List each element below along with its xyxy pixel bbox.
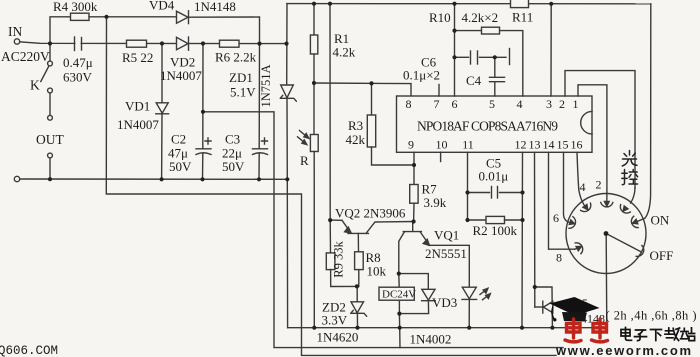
watermark graduation cap logo <box>550 297 600 322</box>
top rail <box>287 3 651 5</box>
wire ON from top rail <box>638 4 651 221</box>
node pin12 bottom <box>520 326 524 330</box>
svg-text:( 2h ,4h ,6h ,8h ): ( 2h ,4h ,6h ,8h ) <box>606 309 697 323</box>
diode VD4 <box>177 11 189 23</box>
node VD3 bottom <box>397 312 401 316</box>
pin 12 line down <box>521 152 524 327</box>
svg-text:4: 4 <box>580 180 586 194</box>
node R1 top <box>312 2 316 6</box>
svg-text:R9 33k: R9 33k <box>332 241 346 278</box>
chinese label 光控 (drawn strokes) <box>622 151 638 185</box>
pin 9 stub and net <box>413 152 415 165</box>
watermark 虫虫 red <box>565 319 608 342</box>
resistor R4 <box>71 13 90 20</box>
capacitor C5 <box>468 192 490 194</box>
svg-text:50V: 50V <box>222 159 245 174</box>
svg-text:OUT: OUT <box>36 132 64 147</box>
node VD5 line bottom <box>550 326 554 330</box>
svg-text:C2: C2 <box>171 132 186 147</box>
node C6 mid <box>493 55 497 59</box>
svg-text:3.3V: 3.3V <box>322 313 348 328</box>
node R10 left <box>452 29 456 33</box>
svg-text:NPO18AF COP8SAA716N9: NPO18AF COP8SAA716N9 <box>417 119 558 134</box>
svg-text:IN: IN <box>8 24 22 39</box>
rotary contact ON (right) <box>631 216 638 227</box>
capacitor C4 <box>494 57 496 77</box>
node VQ2 emitter <box>328 218 332 222</box>
svg-text:VQ1: VQ1 <box>434 228 459 243</box>
svg-text:0.01μ: 0.01μ <box>479 169 509 184</box>
node R3 top <box>369 81 373 85</box>
resistor R5 <box>127 40 147 47</box>
svg-text:8: 8 <box>406 97 412 111</box>
svg-text:VD4: VD4 <box>149 0 175 13</box>
rotary wiper <box>606 234 641 252</box>
resistor R9 <box>329 220 331 253</box>
terminal OUT <box>14 176 19 181</box>
svg-text:16: 16 <box>571 138 583 152</box>
diode VD1 <box>161 44 163 103</box>
node R8 R9 join <box>355 284 359 288</box>
wire IN to junction <box>20 42 287 44</box>
node rail2 end ZD1 line <box>285 177 289 181</box>
LED VD4b indicator <box>462 287 476 299</box>
svg-text:7: 7 <box>434 97 440 111</box>
wire pin8 net <box>314 83 411 96</box>
svg-text:9: 9 <box>408 138 414 152</box>
wire pin2 route lower <box>631 188 636 203</box>
bottom rail 1 <box>288 327 607 329</box>
svg-text:R4 300k: R4 300k <box>53 0 98 14</box>
wire OUT rail <box>20 178 287 180</box>
rotary contact 8 (lower-left) <box>575 243 583 254</box>
svg-text:42k: 42k <box>346 132 366 147</box>
pin 6 line to top rail <box>454 4 456 96</box>
node R2 right <box>520 218 524 222</box>
svg-text:100k: 100k <box>491 223 518 238</box>
resistor R10 <box>482 27 500 34</box>
node OUT/K <box>48 177 52 181</box>
node VQ1 collector <box>397 272 401 276</box>
diode VD2 <box>177 37 189 49</box>
svg-text:1N4007: 1N4007 <box>117 117 159 132</box>
svg-text:C4: C4 <box>466 73 482 88</box>
svg-text:2: 2 <box>559 97 565 111</box>
R10 wire and pin4 drop <box>455 31 523 96</box>
resistor R3 <box>371 83 373 115</box>
node rail end at ZD1 <box>284 42 288 46</box>
pin 7 stub <box>438 85 440 97</box>
svg-text:ON: ON <box>651 213 670 228</box>
text labels left section <box>1 0 273 174</box>
node VQ2 line top <box>328 2 332 6</box>
svg-text:1N4007: 1N4007 <box>160 68 202 83</box>
svg-text:4: 4 <box>517 97 523 111</box>
watermark 电子下载站 (drawn strokes) <box>621 328 695 341</box>
svg-text:6: 6 <box>452 97 458 111</box>
node rotary center <box>604 231 609 236</box>
node C3 bottom <box>257 177 261 181</box>
node ZD2 bottom <box>355 326 359 330</box>
resistor R11 <box>511 0 529 8</box>
svg-text:630V: 630V <box>63 70 93 85</box>
node C6 left <box>452 55 456 59</box>
node C5 right <box>520 190 524 194</box>
rotary contact 4 (upper-left) <box>581 203 591 211</box>
IC pin numbers bottom <box>408 138 583 152</box>
svg-text:AC220V: AC220V <box>1 49 50 64</box>
svg-text:R5 22: R5 22 <box>122 50 153 65</box>
LED light arrows <box>480 290 487 295</box>
node pin9 <box>412 163 416 167</box>
svg-text:ZD1: ZD1 <box>229 70 253 85</box>
svg-text:10k: 10k <box>367 264 387 279</box>
node R4 right <box>104 15 108 19</box>
capacitor C6 pair <box>455 56 469 58</box>
rotary contact OFF (lower-right) <box>636 246 644 257</box>
svg-text:5.1V: 5.1V <box>230 85 256 100</box>
diode VD3 flyback <box>399 274 428 290</box>
light arrows into R <box>300 131 308 137</box>
pin 2 route <box>565 71 635 188</box>
capacitor C2 electrolytic <box>202 44 204 149</box>
svg-text:OFF: OFF <box>650 248 674 263</box>
svg-text:www.eeworm.com: www.eeworm.com <box>555 343 693 357</box>
svg-text:R2: R2 <box>473 223 488 238</box>
wire VQ1 emitter to LED <box>429 245 470 287</box>
svg-text:2N5551: 2N5551 <box>425 246 467 261</box>
pin 11 line <box>467 152 469 220</box>
svg-text:VD1: VD1 <box>125 99 150 114</box>
pin 10 stub <box>440 152 442 161</box>
node pin6 top <box>452 2 456 6</box>
svg-text:K: K <box>30 78 40 93</box>
pin 3 line to top rail <box>550 4 552 96</box>
svg-text:14: 14 <box>543 138 555 152</box>
node VD1 bottom <box>160 177 164 181</box>
switch K <box>49 44 51 62</box>
node VQ1 base <box>412 219 416 223</box>
photoresistor R <box>313 83 315 135</box>
rotary switch body <box>566 194 646 274</box>
node C2 top <box>201 41 205 45</box>
svg-text:Q606.COM: Q606.COM <box>0 344 58 357</box>
svg-text:4.2k×2: 4.2k×2 <box>462 10 499 25</box>
svg-text:4.2k: 4.2k <box>333 45 356 60</box>
svg-text:0.1μ×2: 0.1μ×2 <box>403 68 440 83</box>
zener ZD2 <box>356 286 358 301</box>
wire <box>89 16 177 18</box>
resistor R8 <box>355 252 364 270</box>
svg-text:50V: 50V <box>169 159 192 174</box>
svg-text:VD3: VD3 <box>432 295 457 310</box>
svg-text:R3: R3 <box>348 118 363 133</box>
transistor VQ2 2N3906 <box>330 219 342 221</box>
node LED bottom <box>467 326 471 330</box>
svg-text:1: 1 <box>573 97 579 111</box>
node C2 tap <box>201 110 205 114</box>
pin 16 line to contact 4 <box>577 152 584 205</box>
transistor VQ1 2N5551 <box>412 222 414 231</box>
svg-text:8: 8 <box>556 251 562 265</box>
svg-text:2: 2 <box>596 178 602 192</box>
svg-text:3: 3 <box>546 97 552 111</box>
svg-text:1N751A: 1N751A <box>259 64 273 107</box>
wire top rail left <box>50 17 71 44</box>
node C3 top <box>257 42 261 46</box>
pin 14 line to contact 8 <box>549 152 575 249</box>
rotary contact 1 (upper-right) <box>620 205 630 214</box>
capacitor 0.47u plates <box>74 37 76 51</box>
node pin13 branch <box>533 285 537 289</box>
svg-text:C3: C3 <box>225 132 240 147</box>
terminal IN <box>14 39 19 44</box>
node VD1 top <box>160 41 164 45</box>
svg-text:R10: R10 <box>429 10 451 25</box>
svg-text:15: 15 <box>557 138 569 152</box>
IC pin numbers top <box>406 97 579 111</box>
wire from C2 top node to lower feed <box>203 112 563 348</box>
rotary contact 6 (left) <box>569 217 576 229</box>
resistor R1 <box>313 4 315 35</box>
svg-text:5: 5 <box>489 97 495 111</box>
node R2 left <box>465 218 469 222</box>
svg-text:12: 12 <box>515 138 527 152</box>
wire pin1 route lower <box>606 193 608 201</box>
node IN/K junction <box>48 41 52 45</box>
svg-text:11: 11 <box>462 138 474 152</box>
pin 15 line to contact 6 <box>564 152 570 222</box>
IC U1 COP8SAA716N9 body <box>397 96 593 152</box>
svg-text:R11: R11 <box>512 10 533 25</box>
zener ZD1 line from top-rail corner through rails <box>286 4 288 85</box>
svg-text:1N4002: 1N4002 <box>410 332 452 347</box>
wire long from top rail to VQ2 node <box>329 4 331 221</box>
node R1 bottom <box>312 81 316 85</box>
resistor R7 <box>413 165 415 185</box>
node pin3 top <box>549 2 553 6</box>
wire vertical from R4 node down to neutral run <box>106 17 556 356</box>
resistor R2 <box>468 219 487 221</box>
svg-text:DC24V: DC24V <box>382 288 416 300</box>
rotary common line down <box>605 236 608 328</box>
node photoR bottom <box>312 326 316 330</box>
node C5 left <box>465 190 469 194</box>
wire <box>189 17 260 44</box>
svg-text:1N4148: 1N4148 <box>194 0 236 14</box>
wire pin13 branch to rail <box>535 287 553 328</box>
resistor R6 <box>220 40 240 47</box>
node relay line rail <box>398 326 402 330</box>
svg-text:VQ2 2N3906: VQ2 2N3906 <box>335 206 406 221</box>
svg-text:1N4620: 1N4620 <box>317 330 359 345</box>
capacitor C3 electrolytic <box>258 44 260 149</box>
svg-text:R: R <box>300 153 309 168</box>
pin 1 route <box>578 85 607 193</box>
svg-text:13: 13 <box>529 138 541 152</box>
svg-text:0.47μ: 0.47μ <box>63 55 93 70</box>
relay coil DC24V line <box>398 274 400 288</box>
svg-text:6: 6 <box>553 211 559 225</box>
svg-text:3.9k: 3.9k <box>424 195 447 210</box>
svg-text:R6 2.2k: R6 2.2k <box>215 50 257 65</box>
diode VD5 <box>535 306 543 308</box>
rotary contact 2 (top) <box>601 202 613 206</box>
node C2 bottom <box>200 177 204 181</box>
pin 13 line <box>534 152 536 307</box>
svg-text:10: 10 <box>436 138 448 152</box>
